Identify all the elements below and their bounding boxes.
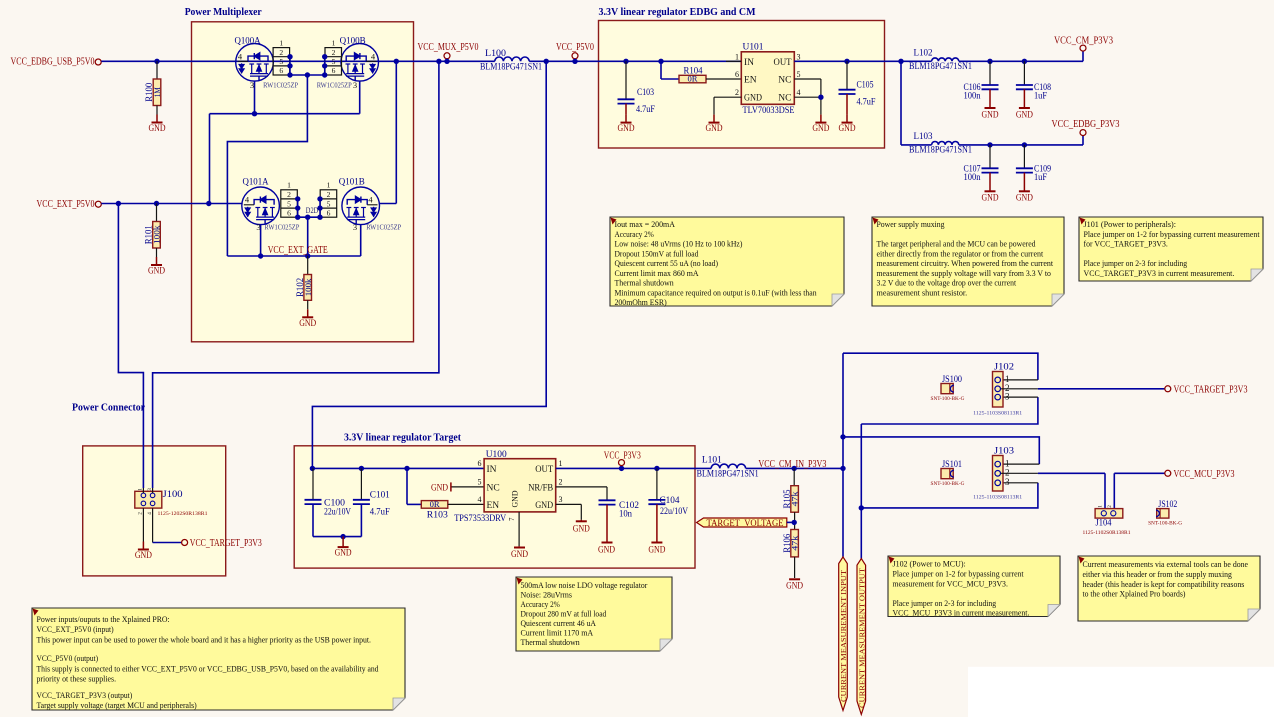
pin GND U101 wire <box>714 96 741 98</box>
ground below C105 <box>846 94 848 115</box>
junction at C107 <box>987 142 992 147</box>
power port flag CURRENT MEASUREMENT INPUT <box>839 557 848 711</box>
wire branch down to L103 row <box>900 61 902 145</box>
junction at C105 <box>844 59 849 64</box>
svg-text:VCC_P5V0: VCC_P5V0 <box>556 42 594 53</box>
svg-text:5: 5 <box>478 478 482 487</box>
svg-text:VCC_EXT_P5V0: VCC_EXT_P5V0 <box>37 199 95 210</box>
svg-text:47k: 47k <box>791 490 800 506</box>
svg-text:SNT-100-BK-G: SNT-100-BK-G <box>931 396 965 402</box>
svg-text:100n: 100n <box>964 173 981 183</box>
svg-text:2: 2 <box>332 48 336 57</box>
svg-text:1uF: 1uF <box>1034 92 1047 102</box>
note 500mA LDO <box>516 577 672 651</box>
section box Power Connector <box>83 446 226 576</box>
wire current measurement output rail <box>860 424 862 560</box>
svg-text:R103: R103 <box>427 509 449 519</box>
transistor Q101A <box>242 187 280 225</box>
junction at R103 branch <box>404 466 409 471</box>
svg-text:JS101: JS101 <box>942 460 962 470</box>
wire output rail to J103 pin3 <box>861 483 1038 508</box>
wire J103 pin2 to J104 <box>1001 472 1038 474</box>
svg-text:100n: 100n <box>964 92 981 102</box>
svg-text:1125-1103S08113R1: 1125-1103S08113R1 <box>973 411 1022 417</box>
junction Q101A source on gate net <box>258 253 263 258</box>
op-amp U101 regulator TLV70033DSE <box>741 52 794 105</box>
ground below C109 <box>1023 173 1025 192</box>
junction VCC_EXT_GATE at R102 <box>305 253 310 258</box>
svg-text:J103: J103 <box>994 447 1014 457</box>
svg-text:1: 1 <box>327 181 331 190</box>
svg-text:1: 1 <box>559 459 563 468</box>
jumper JS100 <box>941 384 953 394</box>
svg-text:GND: GND <box>299 319 316 329</box>
svg-text:VCC_TARGET_P3V3: VCC_TARGET_P3V3 <box>1174 384 1248 395</box>
flag TARGET_VOLTAGE <box>697 518 787 527</box>
svg-text:GND: GND <box>982 110 999 120</box>
svg-text:1: 1 <box>279 38 283 47</box>
ground below C100 C101 <box>342 537 344 548</box>
svg-text:This supply is connected to ei: This supply is connected to either VCC_E… <box>37 663 380 673</box>
header J103 <box>993 456 1004 492</box>
svg-text:3: 3 <box>353 222 357 232</box>
svg-text:VCC_P5V0 (output): VCC_P5V0 (output) <box>37 653 99 663</box>
svg-text:priority ot these supplies.: priority ot these supplies. <box>37 674 117 684</box>
svg-text:1125-1102S0R138R1: 1125-1102S0R138R1 <box>1083 530 1131 536</box>
svg-text:VCC_EXT_GATE: VCC_EXT_GATE <box>268 245 328 256</box>
svg-text:Accuracy 2%: Accuracy 2% <box>521 599 560 609</box>
inductor L101 <box>711 464 745 468</box>
svg-text:for VCC_TARGET_P3V3.: for VCC_TARGET_P3V3. <box>1084 239 1168 249</box>
svg-text:J102: J102 <box>994 363 1014 373</box>
svg-text:measurement the supply voltage: measurement the supply voltage will vary… <box>877 268 1052 278</box>
wire VCC_EXT_GATE horizontal <box>227 255 360 257</box>
junction VCC_P5V0 terminal <box>572 59 577 64</box>
wire Q101 bridge down to VCC_EXT_GATE <box>307 217 309 256</box>
svg-text:GND: GND <box>982 194 999 204</box>
svg-text:NR/FB: NR/FB <box>528 484 553 494</box>
note current measurements via external tools <box>1078 556 1260 621</box>
svg-text:GND: GND <box>431 483 448 493</box>
ground below R101 <box>156 248 158 257</box>
svg-text:1: 1 <box>287 181 291 190</box>
svg-text:NC: NC <box>778 76 791 86</box>
svg-text:GND: GND <box>1016 194 1033 204</box>
ground below C102 <box>606 505 608 543</box>
capacitor C102 <box>599 499 616 501</box>
svg-text:VCC_EDBG_P3V3: VCC_EDBG_P3V3 <box>1052 119 1120 130</box>
svg-text:100k: 100k <box>153 224 162 244</box>
svg-text:D2D: D2D <box>306 206 319 215</box>
svg-text:1uF: 1uF <box>1034 173 1047 183</box>
svg-text:Thermal shutdown: Thermal shutdown <box>615 278 675 288</box>
wire Q100 source down to VCC_EXT <box>209 114 211 204</box>
svg-text:This power input can be used t: This power input can be used to power th… <box>37 634 372 644</box>
resistor R103 <box>421 501 448 509</box>
pin stubs J100 <box>142 488 144 493</box>
wire Q100 sources <box>254 81 256 114</box>
svg-text:3.3V linear regulator Target: 3.3V linear regulator Target <box>344 432 461 443</box>
svg-text:6: 6 <box>287 208 291 217</box>
junction VCC_P5V0 branch down <box>544 59 549 64</box>
wire NR/FB to C102 <box>556 486 607 488</box>
svg-text:1125-1202S0R138R1: 1125-1202S0R138R1 <box>158 511 208 517</box>
svg-text:EN: EN <box>487 501 500 511</box>
svg-text:GND: GND <box>510 491 520 508</box>
svg-text:U101: U101 <box>743 43 764 53</box>
section box 3.3V linear regulator EDBG and CM <box>599 21 885 149</box>
svg-text:3: 3 <box>1005 477 1010 487</box>
junction at C101 <box>359 466 364 471</box>
wire L101 to current measurement rail <box>746 467 843 469</box>
wire current measurement input rail <box>842 353 844 557</box>
svg-text:6: 6 <box>332 66 336 75</box>
svg-text:2: 2 <box>735 88 739 97</box>
svg-text:2: 2 <box>1107 505 1113 508</box>
pin GND3 U100 wire <box>556 503 582 505</box>
svg-text:GND: GND <box>1016 110 1033 120</box>
terminal VCC_EDBG_USB_P5V0 <box>95 59 101 65</box>
svg-text:1125-1103S08113R1: 1125-1103S08113R1 <box>973 495 1022 501</box>
wire VCC_EXT riser to power connector <box>118 204 143 489</box>
svg-text:RW1C025ZP: RW1C025ZP <box>264 223 299 231</box>
svg-text:SNT-100-BK-G: SNT-100-BK-G <box>931 481 965 487</box>
svg-text:VCC_TARGET_P3V3 in current mea: VCC_TARGET_P3V3 in current measurement. <box>1084 268 1235 278</box>
svg-text:500mA low noise LDO voltage re: 500mA low noise LDO voltage regulator <box>521 580 648 590</box>
junction at C100 <box>310 466 315 471</box>
svg-text:C105: C105 <box>857 80 874 90</box>
svg-text:3: 3 <box>797 52 801 61</box>
inductor L100 <box>495 57 529 61</box>
junction NC pins <box>818 95 823 100</box>
svg-text:1M: 1M <box>153 87 162 98</box>
svg-text:3: 3 <box>353 80 357 90</box>
svg-text:BLM18PG471SN1: BLM18PG471SN1 <box>480 63 542 73</box>
junction VCC_MUX terminal <box>444 59 449 64</box>
svg-text:GND: GND <box>511 550 528 560</box>
wire L102 to VCC_CM_P3V3 <box>959 60 1083 62</box>
junction at R101 <box>154 201 159 206</box>
svg-text:U100: U100 <box>486 450 507 460</box>
svg-text:Dropout 280 mV at full load: Dropout 280 mV at full load <box>521 609 607 619</box>
junction L102 L103 branch <box>898 59 903 64</box>
svg-text:3.3V linear regulator EDBG and: 3.3V linear regulator EDBG and CM <box>599 7 756 18</box>
note power inputs outputs <box>32 608 405 710</box>
svg-text:VCC_EXT_P5V0 (input): VCC_EXT_P5V0 (input) <box>37 624 114 634</box>
svg-text:4: 4 <box>797 88 801 97</box>
svg-text:Power inputs/ouputs to the Xpl: Power inputs/ouputs to the Xplained PRO: <box>37 614 170 624</box>
svg-text:L101: L101 <box>702 455 722 465</box>
svg-text:Low noise: 48 uVrms (10 Hz to: Low noise: 48 uVrms (10 Hz to 100 kHz) <box>615 239 743 249</box>
svg-text:BLM18PG471SN1: BLM18PG471SN1 <box>909 146 972 156</box>
capacitor C106 <box>989 61 991 85</box>
wire to R103 <box>406 468 408 504</box>
svg-text:either via this header or from: either via this header or from the suppl… <box>1083 569 1233 579</box>
wire Q101B source down <box>360 225 362 256</box>
terminal VCC_TARGET_P3V3 <box>1165 386 1171 392</box>
svg-text:6: 6 <box>735 70 739 79</box>
svg-text:1: 1 <box>735 52 739 61</box>
svg-text:2: 2 <box>138 512 144 515</box>
ground below J100 <box>142 508 144 541</box>
inductor L103 <box>901 144 932 146</box>
svg-text:5: 5 <box>797 70 801 79</box>
junction at C104 <box>654 466 659 471</box>
svg-text:OUT: OUT <box>535 465 553 475</box>
svg-text:Current measurements via exter: Current measurements via external tools … <box>1083 559 1249 569</box>
svg-text:to the other Xplained Pro boar: to the other Xplained Pro boards) <box>1083 589 1186 599</box>
ground below R102 <box>307 300 309 309</box>
transistor Q100B <box>341 44 379 82</box>
svg-text:GND: GND <box>135 551 152 561</box>
svg-text:Q100B: Q100B <box>340 36 366 46</box>
svg-text:3: 3 <box>559 495 563 504</box>
svg-text:OUT: OUT <box>774 58 792 68</box>
pin NC4 U101 wire <box>794 96 821 98</box>
pin GND7 U100 wire <box>518 512 520 546</box>
svg-text:Power supply muxing: Power supply muxing <box>877 219 946 229</box>
junction VCC_EXT riser <box>116 201 121 206</box>
wire L103 to VCC_EDBG_P3V3 <box>959 144 1083 146</box>
junction CM input rail <box>840 466 845 471</box>
section box Power Multiplexer <box>192 22 414 342</box>
transistor Q100A <box>236 44 274 82</box>
svg-text:Place jumper on 1-2 for bypass: Place jumper on 1-2 for bypassing curren… <box>1084 229 1261 239</box>
junction Q100 source branch <box>206 201 211 206</box>
wire input net in target box <box>312 467 484 469</box>
resistor R105 <box>793 468 795 485</box>
resistor R104 <box>679 75 706 83</box>
svg-text:Current limit max 860 mA: Current limit max 860 mA <box>615 268 700 278</box>
note Iout max 200mA <box>610 217 844 306</box>
wire Q101B gate to riser <box>380 203 397 205</box>
svg-text:Q101A: Q101A <box>243 177 269 187</box>
wire Q100 bridge down to gate net <box>227 75 307 256</box>
svg-text:4.7uF: 4.7uF <box>857 98 876 108</box>
svg-text:2: 2 <box>559 478 563 487</box>
pin NC5 U101 wire <box>794 78 821 80</box>
ground below C104 <box>656 504 658 542</box>
capacitor C104 <box>656 468 658 500</box>
svg-text:measurement circuitry. When po: measurement circuitry. When powered from… <box>877 258 1054 268</box>
svg-text:Noise: 28uVrms: Noise: 28uVrms <box>521 590 573 600</box>
op-amp U100 regulator TPS73533DRV <box>484 459 556 512</box>
wire VCC_MCU_P3V3 to J104 <box>1114 472 1165 474</box>
section box 3.3V linear regulator Target <box>294 446 695 568</box>
svg-text:CURRENT MEASUREMENT OUTPUT: CURRENT MEASUREMENT OUTPUT <box>857 567 866 708</box>
svg-text:1: 1 <box>1098 505 1104 508</box>
svg-text:JS100: JS100 <box>942 375 962 385</box>
svg-text:Quiescent current 46 uA: Quiescent current 46 uA <box>521 618 597 628</box>
svg-text:RW1C025ZP: RW1C025ZP <box>263 82 298 90</box>
wire R104 to EN pin <box>706 78 741 80</box>
junction input rail J103 branch <box>840 434 845 439</box>
capacitor C109 <box>1023 145 1025 168</box>
capacitor C107 <box>989 145 991 168</box>
terminal VCC_CM_P3V3 <box>1080 45 1086 51</box>
svg-text:GND: GND <box>839 124 856 134</box>
svg-text:GND: GND <box>598 546 615 556</box>
svg-text:Q100A: Q100A <box>235 36 261 46</box>
svg-text:The target peripheral and the: The target peripheral and the MCU can be… <box>877 239 1037 249</box>
svg-text:5: 5 <box>327 199 331 208</box>
svg-text:measurement shunt resistor.: measurement shunt resistor. <box>877 287 968 297</box>
svg-text:GND: GND <box>706 124 723 134</box>
ground below R106 <box>794 557 796 578</box>
ground below C107 <box>989 173 991 192</box>
svg-text:Place jumper on 2-3 for includ: Place jumper on 2-3 for including <box>1084 258 1188 268</box>
svg-text:1: 1 <box>138 488 144 491</box>
svg-text:either directly from the regul: either directly from the regulator or fr… <box>877 248 1044 258</box>
svg-text:5: 5 <box>279 57 283 66</box>
terminal VCC_P5V0 <box>572 53 578 59</box>
svg-text:GND: GND <box>573 524 590 534</box>
svg-text:VCC_P3V3: VCC_P3V3 <box>604 451 641 462</box>
svg-text:TARGET_VOLTAGE: TARGET_VOLTAGE <box>707 518 784 528</box>
svg-text:5: 5 <box>287 199 291 208</box>
svg-text:3.2 V due to the voltage drop: 3.2 V due to the voltage drop over the c… <box>877 278 1017 288</box>
wire OUT U100 <box>556 467 712 469</box>
ground below C108 <box>1023 89 1025 108</box>
no-connect GND marker at NC pin U100 <box>451 486 484 488</box>
svg-text:VCC_MCU_P3V3: VCC_MCU_P3V3 <box>1174 469 1235 480</box>
junction output rail J103 branch <box>859 505 864 510</box>
svg-text:7: 7 <box>508 517 516 521</box>
junction VCC_P3V3 terminal <box>619 466 624 471</box>
resistor R106 <box>791 530 799 557</box>
transistor Q101B <box>342 187 380 225</box>
svg-text:4: 4 <box>478 495 482 504</box>
svg-text:GND: GND <box>744 94 762 104</box>
wire input rail to J103 pin1 <box>843 437 1039 464</box>
resistor R102 <box>307 256 309 275</box>
wire VCC_MUX riser to power connector <box>153 61 439 488</box>
wire R105 to R106 <box>794 512 796 529</box>
svg-text:J100: J100 <box>163 490 183 500</box>
svg-text:2: 2 <box>327 190 331 199</box>
ground below C106 <box>989 89 991 108</box>
terminal VCC_MUX_P5V0 <box>444 53 450 59</box>
svg-text:J104: J104 <box>1096 519 1112 529</box>
svg-text:Current limit 1170 mA: Current limit 1170 mA <box>521 628 594 638</box>
capacitor C105 <box>846 61 848 89</box>
capacitor C100 <box>312 468 314 499</box>
terminal VCC_EXT_P5V0 <box>95 201 101 207</box>
svg-text:L103: L103 <box>914 132 933 142</box>
wire output rail to J102 pin3 <box>861 397 1038 424</box>
svg-text:L100: L100 <box>485 49 506 59</box>
svg-text:Q101B: Q101B <box>339 177 365 187</box>
svg-text:JS102: JS102 <box>1158 500 1177 510</box>
svg-text:CURRENT MEASUREMENT INPUT: CURRENT MEASUREMENT INPUT <box>839 569 848 702</box>
svg-text:Dropout 150mV at full load: Dropout 150mV at full load <box>615 248 699 258</box>
svg-text:RW1C025ZP: RW1C025ZP <box>366 223 401 231</box>
svg-text:header (this header is kept fo: header (this header is kept for compatib… <box>1083 579 1245 589</box>
svg-text:IN: IN <box>487 465 497 475</box>
svg-text:0R: 0R <box>430 500 441 509</box>
svg-text:1: 1 <box>332 38 336 47</box>
junction at R100 <box>154 59 159 64</box>
svg-text:TLV70033DSE: TLV70033DSE <box>743 106 795 116</box>
capacitor C101 <box>360 468 362 499</box>
svg-text:Quiescent current 55 uA (no lo: Quiescent current 55 uA (no load) <box>615 258 719 268</box>
svg-text:2: 2 <box>1005 468 1010 478</box>
junction riser top <box>394 59 399 64</box>
connector J100 <box>135 491 162 508</box>
power port flag CURRENT MEASUREMENT OUTPUT <box>860 560 862 561</box>
inductor L102 <box>901 60 932 62</box>
wire riser Q101B gate to top net <box>395 61 397 203</box>
svg-text:J102 (Power to MCU):: J102 (Power to MCU): <box>893 559 966 569</box>
svg-text:C103: C103 <box>637 88 654 98</box>
svg-text:VCC_TARGET_P3V3: VCC_TARGET_P3V3 <box>190 538 262 549</box>
svg-text:GND: GND <box>335 549 352 559</box>
wire L100 to EDBG box <box>529 60 741 62</box>
wire OUT U101 to L102 branch <box>794 60 901 62</box>
svg-text:Power Connector: Power Connector <box>72 402 145 413</box>
svg-text:L102: L102 <box>914 49 933 59</box>
svg-text:RW1C025ZP: RW1C025ZP <box>317 82 352 90</box>
wire Q101A source down <box>260 225 262 256</box>
terminal VCC_EDBG_P3V3 <box>1080 130 1086 136</box>
junction TARGET_VOLTAGE <box>792 520 797 525</box>
svg-text:VCC_MUX_P5V0: VCC_MUX_P5V0 <box>418 42 479 53</box>
ground below R100 <box>156 106 158 115</box>
connector J104 <box>1095 509 1123 518</box>
svg-text:EN: EN <box>744 76 757 86</box>
terminal VCC_TARGET_P3V3 power connector <box>182 540 188 546</box>
junction at C106 <box>987 59 992 64</box>
header J102 <box>993 372 1004 408</box>
svg-text:6: 6 <box>478 459 482 468</box>
svg-text:5: 5 <box>332 57 336 66</box>
svg-text:measurement for VCC_MCU_P3V3.: measurement for VCC_MCU_P3V3. <box>893 578 1008 588</box>
pin box Q101A <box>281 190 298 217</box>
svg-text:BLM18PG471SN1: BLM18PG471SN1 <box>909 62 972 72</box>
svg-text:Minimum capacitance required o: Minimum capacitance required on output i… <box>615 287 818 297</box>
svg-text:Place jumper on 1-2 for bypass: Place jumper on 1-2 for bypassing curren… <box>893 568 1025 578</box>
wire C100 C101 to ground rail <box>312 504 314 536</box>
svg-text:3: 3 <box>250 80 254 90</box>
svg-text:IN: IN <box>744 58 754 68</box>
junction at R105 <box>792 466 797 471</box>
junction at R104 branch <box>658 59 663 64</box>
svg-text:22u/10V: 22u/10V <box>324 507 351 517</box>
svg-text:3: 3 <box>1005 391 1010 401</box>
terminal VCC_P3V3 <box>619 460 625 466</box>
svg-text:Place jumper on 2-3 for includ: Place jumper on 2-3 for including <box>893 598 997 608</box>
svg-text:Power Multiplexer: Power Multiplexer <box>185 7 262 18</box>
wire J102 pin2 to VCC_TARGET_P3V3 <box>1001 388 1038 390</box>
wire J100 to VCC_TARGET_P3V3 terminal <box>152 508 154 542</box>
wire VCC_EDBG_USB_P5V0 to mux <box>101 60 495 62</box>
note J102 Power to MCU <box>888 556 1060 617</box>
pin box Q100A <box>273 48 290 75</box>
ground below U100 pin 7 <box>514 547 525 549</box>
pin IN U101 <box>726 60 741 62</box>
bridge wire between Q101 pin boxes <box>298 216 320 218</box>
svg-text:C104: C104 <box>660 496 680 506</box>
svg-text:C101: C101 <box>370 491 390 501</box>
junction VCC_MUX riser <box>436 59 441 64</box>
svg-text:Thermal shutdown: Thermal shutdown <box>521 637 581 647</box>
svg-text:4.7uF: 4.7uF <box>636 105 655 115</box>
svg-text:2: 2 <box>279 48 283 57</box>
svg-text:GND: GND <box>812 124 829 134</box>
svg-text:22u/10V: 22u/10V <box>660 507 688 517</box>
svg-text:200mOhm ESR): 200mOhm ESR) <box>615 297 667 307</box>
capacitor C108 <box>1023 61 1025 85</box>
